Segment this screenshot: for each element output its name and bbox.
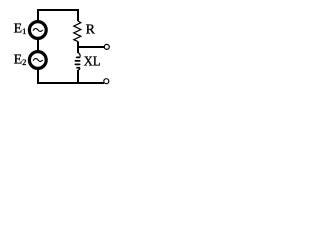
AC source E1: [29, 22, 46, 39]
wire left branch top stem: [37, 9, 39, 22]
sine wave of E1: [33, 29, 43, 32]
svg-text:E2: E2: [14, 52, 27, 67]
wire top rail: [37, 9, 79, 11]
terminal 1: [104, 44, 109, 49]
node A tap wire to terminal: [78, 46, 104, 48]
svg-text:E1: E1: [14, 21, 27, 36]
wire right branch top stem: [77, 9, 79, 21]
svg-text:R: R: [86, 23, 96, 38]
wire resistor to node A: [77, 42, 79, 54]
wire between E1 and E2: [37, 39, 39, 52]
svg-text:XL: XL: [84, 54, 101, 69]
wire inductor to bottom rail: [77, 70, 79, 83]
terminal 2: [104, 79, 109, 84]
sine wave of E2: [33, 59, 43, 62]
wire left branch bottom stem: [37, 69, 39, 84]
inductor XL: [75, 53, 81, 71]
resistor R: [74, 21, 81, 42]
wire bottom rail: [37, 82, 104, 84]
AC source E2: [29, 52, 46, 69]
